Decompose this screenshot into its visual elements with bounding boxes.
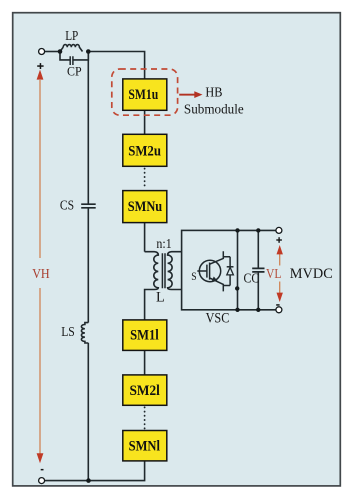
wire left branch middle bbox=[87, 208, 89, 323]
svg-text:CP: CP bbox=[67, 64, 82, 79]
node VSC top right bbox=[235, 228, 239, 232]
svg-text:SMNu: SMNu bbox=[128, 199, 162, 215]
capacitor CS bbox=[81, 204, 96, 208]
terminal - output bbox=[276, 307, 282, 313]
collector lead bbox=[210, 251, 231, 264]
submodule SMNu bbox=[123, 191, 167, 223]
emitter lead bbox=[210, 278, 231, 292]
svg-text:L: L bbox=[156, 290, 165, 306]
HB submodule dashed highlight bbox=[112, 69, 178, 115]
capacitor CC bbox=[257, 230, 259, 309]
transformer primary bbox=[145, 252, 159, 320]
svg-text:LS: LS bbox=[61, 324, 75, 339]
wire dotted SM2l to SMNl bbox=[144, 407, 146, 429]
wire SM1l to SM2l bbox=[144, 350, 146, 375]
submodule SM1u bbox=[123, 79, 167, 110]
svg-text:VSC: VSC bbox=[206, 310, 230, 326]
svg-text:SM1u: SM1u bbox=[128, 87, 158, 103]
label + output bbox=[276, 237, 282, 243]
submodule SM1l bbox=[123, 320, 167, 351]
wire SMNu to transformer bbox=[144, 223, 146, 252]
HB callout arrow bbox=[179, 91, 202, 98]
submodule SMNl bbox=[123, 431, 167, 461]
svg-text:CC: CC bbox=[244, 270, 260, 285]
node LP right bbox=[86, 49, 91, 54]
submodule SM2l bbox=[123, 375, 167, 405]
svg-text:LP: LP bbox=[65, 28, 78, 43]
wire top to SM chain bbox=[88, 52, 144, 79]
gate lead S bbox=[197, 270, 207, 272]
emitter arrowhead bbox=[212, 277, 218, 281]
terminal - input bbox=[39, 478, 45, 484]
wire top input bbox=[45, 51, 61, 53]
inductor LP bbox=[60, 45, 83, 52]
svg-text:Submodule: Submodule bbox=[184, 102, 244, 117]
svg-text:CS: CS bbox=[60, 198, 74, 213]
node VSC bottom right bbox=[235, 308, 239, 312]
svg-text:SM2u: SM2u bbox=[128, 143, 161, 159]
transistor Q1 circle bbox=[199, 260, 220, 281]
node VSC right mid bbox=[235, 286, 239, 290]
wire dotted SM2u to SMNu bbox=[144, 169, 146, 190]
label - output bbox=[276, 304, 279, 306]
node LP left bbox=[58, 49, 63, 54]
IGBT U1 with diode bbox=[197, 251, 233, 291]
transformer core bbox=[162, 253, 165, 288]
label + input bbox=[37, 63, 43, 69]
submodule SM2u bbox=[123, 134, 167, 166]
transformer secondary bbox=[168, 252, 182, 290]
svg-text:SM1l: SM1l bbox=[130, 328, 159, 344]
svg-text:VH: VH bbox=[32, 266, 50, 281]
svg-text:S: S bbox=[191, 269, 196, 283]
node CC top bbox=[256, 228, 260, 232]
svg-text:VL: VL bbox=[266, 266, 282, 281]
wire left branch upper bbox=[87, 52, 89, 205]
node CC bottom bbox=[256, 308, 260, 312]
terminal + input bbox=[39, 49, 45, 55]
svg-text:MVDC: MVDC bbox=[290, 266, 333, 282]
svg-text:SMNl: SMNl bbox=[129, 438, 160, 454]
capacitor CP bbox=[60, 52, 88, 60]
inductor LS bbox=[81, 323, 88, 343]
svg-text:SM2l: SM2l bbox=[130, 383, 160, 399]
node bottom left bbox=[86, 478, 91, 483]
body bar bbox=[209, 263, 211, 280]
terminal + output bbox=[276, 227, 282, 233]
VL arrow bbox=[277, 245, 283, 302]
gate bar bbox=[206, 265, 208, 278]
label - input bbox=[41, 469, 44, 471]
wire DC top rail bbox=[238, 229, 276, 231]
VH arrow bbox=[37, 70, 44, 464]
wire SM1u to SM2u bbox=[144, 110, 146, 134]
svg-text:n:1: n:1 bbox=[156, 236, 171, 251]
svg-text:HB: HB bbox=[205, 86, 222, 101]
VSC box bbox=[182, 230, 238, 309]
wire DC bottom rail bbox=[238, 309, 276, 311]
diode D1 bbox=[229, 257, 231, 286]
wire bottom bbox=[44, 461, 144, 481]
wire left branch lower bbox=[87, 343, 89, 481]
